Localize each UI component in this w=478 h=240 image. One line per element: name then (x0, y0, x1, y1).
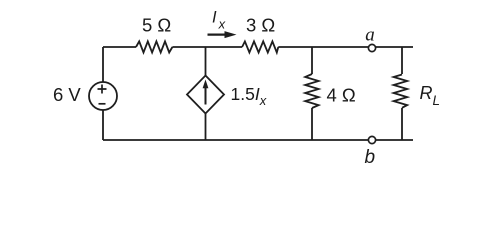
svg-text:3 Ω: 3 Ω (246, 15, 275, 36)
wire 4-ohm branch lower (311, 108, 313, 140)
svg-text:5 Ω: 5 Ω (142, 15, 171, 36)
svg-text:1.5Ix: 1.5Ix (231, 84, 267, 108)
resistor 4 ohm (305, 74, 318, 108)
wire middle branch upper (205, 47, 207, 76)
dependent source arrow (203, 80, 209, 105)
svg-text:Ix: Ix (212, 9, 226, 32)
svg-text:b: b (365, 147, 376, 168)
wire RL branch upper (401, 47, 403, 74)
resistor 5 ohm (136, 41, 172, 52)
voltage source minus sign (99, 103, 106, 105)
dependent current source diamond (187, 76, 224, 114)
wire top rail right segment (278, 46, 413, 48)
svg-text:6 V: 6 V (53, 84, 81, 105)
wire bottom rail (103, 139, 413, 141)
resistor 3 ohm (242, 41, 278, 52)
svg-text:a: a (365, 24, 375, 45)
wire top rail left segment (103, 46, 136, 48)
voltage source V1 circle (89, 82, 117, 110)
current arrow Ix (208, 31, 237, 38)
wire top rail middle segment (172, 46, 242, 48)
wire 4-ohm branch upper (311, 47, 313, 74)
wire middle branch lower (205, 114, 207, 141)
voltage source plus sign (98, 85, 107, 94)
wire RL branch lower (401, 108, 403, 140)
wire left branch upper (102, 47, 104, 82)
resistor RL (394, 75, 408, 108)
svg-text:4 Ω: 4 Ω (327, 85, 356, 106)
svg-text:RL: RL (420, 83, 441, 108)
terminal node b (368, 136, 375, 143)
wire left branch lower (102, 110, 104, 140)
terminal node a (368, 44, 375, 51)
